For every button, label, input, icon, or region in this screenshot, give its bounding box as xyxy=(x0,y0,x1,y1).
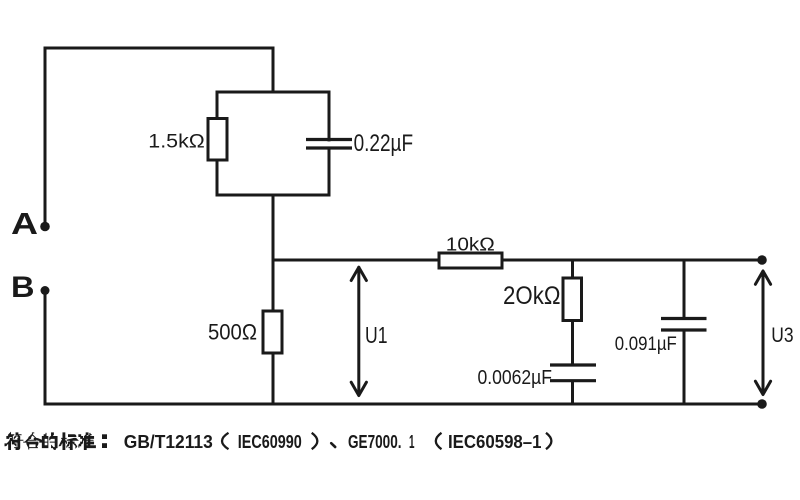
svg-text:GB/T12113: GB/T12113 xyxy=(124,431,213,452)
svg-text:A: A xyxy=(11,206,38,241)
svg-text:U1: U1 xyxy=(365,322,388,348)
svg-text:U3: U3 xyxy=(771,323,793,347)
svg-text:10kΩ: 10kΩ xyxy=(446,234,495,255)
svg-text:B: B xyxy=(11,271,35,304)
svg-text:IEC60598–1: IEC60598–1 xyxy=(448,431,542,452)
svg-text:1: 1 xyxy=(409,431,415,452)
svg-text:2OkΩ: 2OkΩ xyxy=(503,282,561,310)
svg-text:IEC60990: IEC60990 xyxy=(238,431,302,452)
svg-text:0.22µF: 0.22µF xyxy=(354,130,414,157)
svg-text:500Ω: 500Ω xyxy=(208,319,257,344)
svg-text:0.0062µF: 0.0062µF xyxy=(478,367,553,389)
svg-text:1.5kΩ: 1.5kΩ xyxy=(148,130,205,152)
svg-text:0.091µF: 0.091µF xyxy=(615,333,677,355)
svg-text:GE7000.: GE7000. xyxy=(348,431,402,452)
